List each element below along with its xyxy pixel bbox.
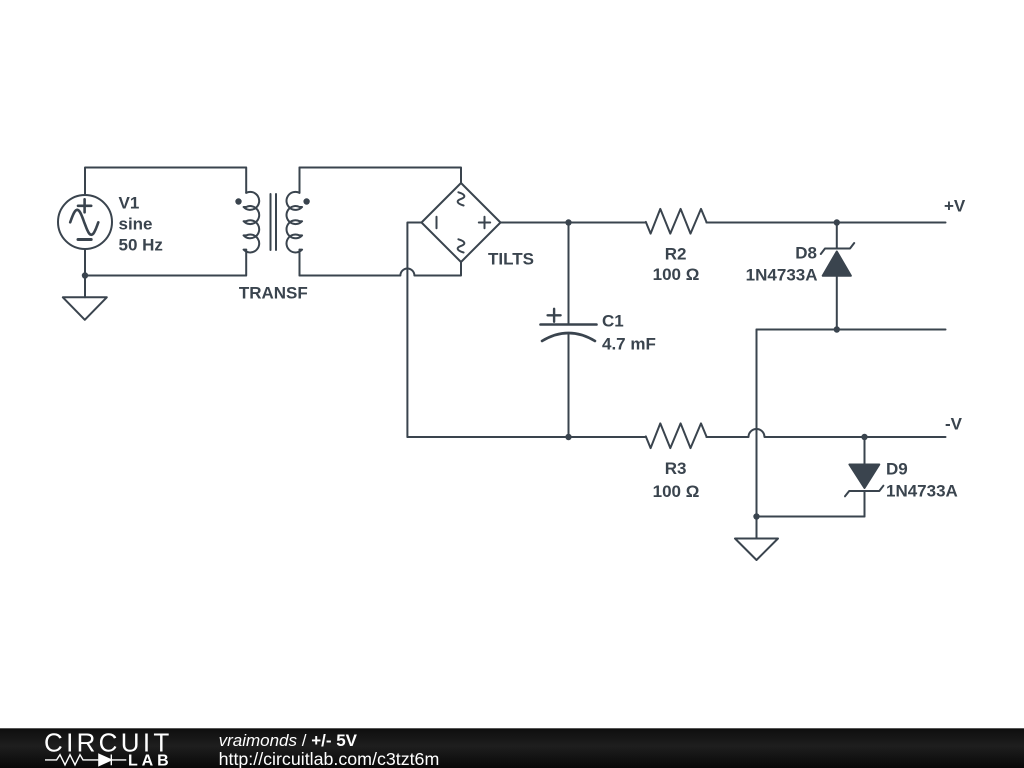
wire V1 top to transformer primary top xyxy=(85,168,246,196)
svg-text:1N4733A: 1N4733A xyxy=(746,266,818,285)
wire middle rail xyxy=(757,329,946,331)
svg-text:TRANSF: TRANSF xyxy=(239,284,308,303)
resistor R2 xyxy=(646,209,707,234)
label C1 xyxy=(602,312,656,354)
svg-text:D8: D8 xyxy=(795,243,817,262)
wire bridge left output down to bottom rail xyxy=(407,223,421,438)
wire transformer secondary top to bridge xyxy=(300,168,462,184)
rectifier bridge TILTS xyxy=(422,183,501,262)
voltage source V1 xyxy=(58,195,112,249)
wire transformer secondary bottom to bridge (hop over vertical) xyxy=(300,262,462,276)
svg-text:100 Ω: 100 Ω xyxy=(653,265,700,284)
label D9 xyxy=(886,460,958,501)
label R2 xyxy=(653,244,700,284)
svg-text:vraimonds / +/- 5V: vraimonds / +/- 5V xyxy=(219,731,358,750)
svg-text:D9: D9 xyxy=(886,460,908,479)
wire middle rail down to ground junction xyxy=(756,330,758,517)
zener diode D8 xyxy=(821,223,854,330)
footer bar xyxy=(0,728,1024,768)
wire V1 bottom to ground xyxy=(84,249,86,297)
label D8 xyxy=(746,243,818,284)
svg-text:100 Ω: 100 Ω xyxy=(653,482,700,501)
ground (bottom) xyxy=(735,539,778,561)
resistor R3 xyxy=(646,423,707,448)
wire bridge + output to R2 (+V rail left part) xyxy=(501,222,646,224)
svg-text:V1: V1 xyxy=(119,194,140,213)
label R3 xyxy=(653,459,700,501)
transformer TRANSF xyxy=(235,168,309,276)
wire R2 to +V rail end xyxy=(706,222,945,224)
svg-text:R3: R3 xyxy=(665,459,687,478)
CircuitLab logo resistor-diode squiggle xyxy=(45,754,126,765)
wire R3 to -V rail end (hop over vertical) xyxy=(706,429,945,437)
node junction D9 top xyxy=(861,434,867,440)
node junction D8 bottom xyxy=(834,326,840,332)
ground (below V1) xyxy=(63,297,107,320)
zener diode D9 xyxy=(845,437,883,517)
wire bottom rail left part xyxy=(407,436,645,438)
svg-text:C1: C1 xyxy=(602,312,624,331)
svg-text:LAB: LAB xyxy=(128,753,173,768)
svg-text:sine: sine xyxy=(119,215,153,234)
svg-text:50 Hz: 50 Hz xyxy=(119,236,163,255)
node junction at V1 bottom xyxy=(82,272,88,278)
wire V1 junction to transformer primary bottom xyxy=(85,275,246,277)
node junction at ground xyxy=(753,513,759,519)
node junction C1 top xyxy=(565,219,571,225)
wire junction to ground xyxy=(756,517,758,539)
svg-text:1N4733A: 1N4733A xyxy=(886,482,958,501)
svg-text:4.7 mF: 4.7 mF xyxy=(602,334,656,353)
svg-text:http://circuitlab.com/c3tzt6m: http://circuitlab.com/c3tzt6m xyxy=(219,749,440,768)
capacitor C1 xyxy=(541,223,597,438)
label V1 xyxy=(119,194,163,255)
node junction D8 top xyxy=(834,219,840,225)
svg-text:-V: -V xyxy=(945,414,963,433)
svg-text:R2: R2 xyxy=(665,244,687,263)
svg-text:+V: +V xyxy=(944,197,966,216)
node junction C1 bottom xyxy=(565,434,571,440)
wire D9 bottom to ground junction xyxy=(757,516,865,518)
svg-text:TILTS: TILTS xyxy=(488,250,534,269)
